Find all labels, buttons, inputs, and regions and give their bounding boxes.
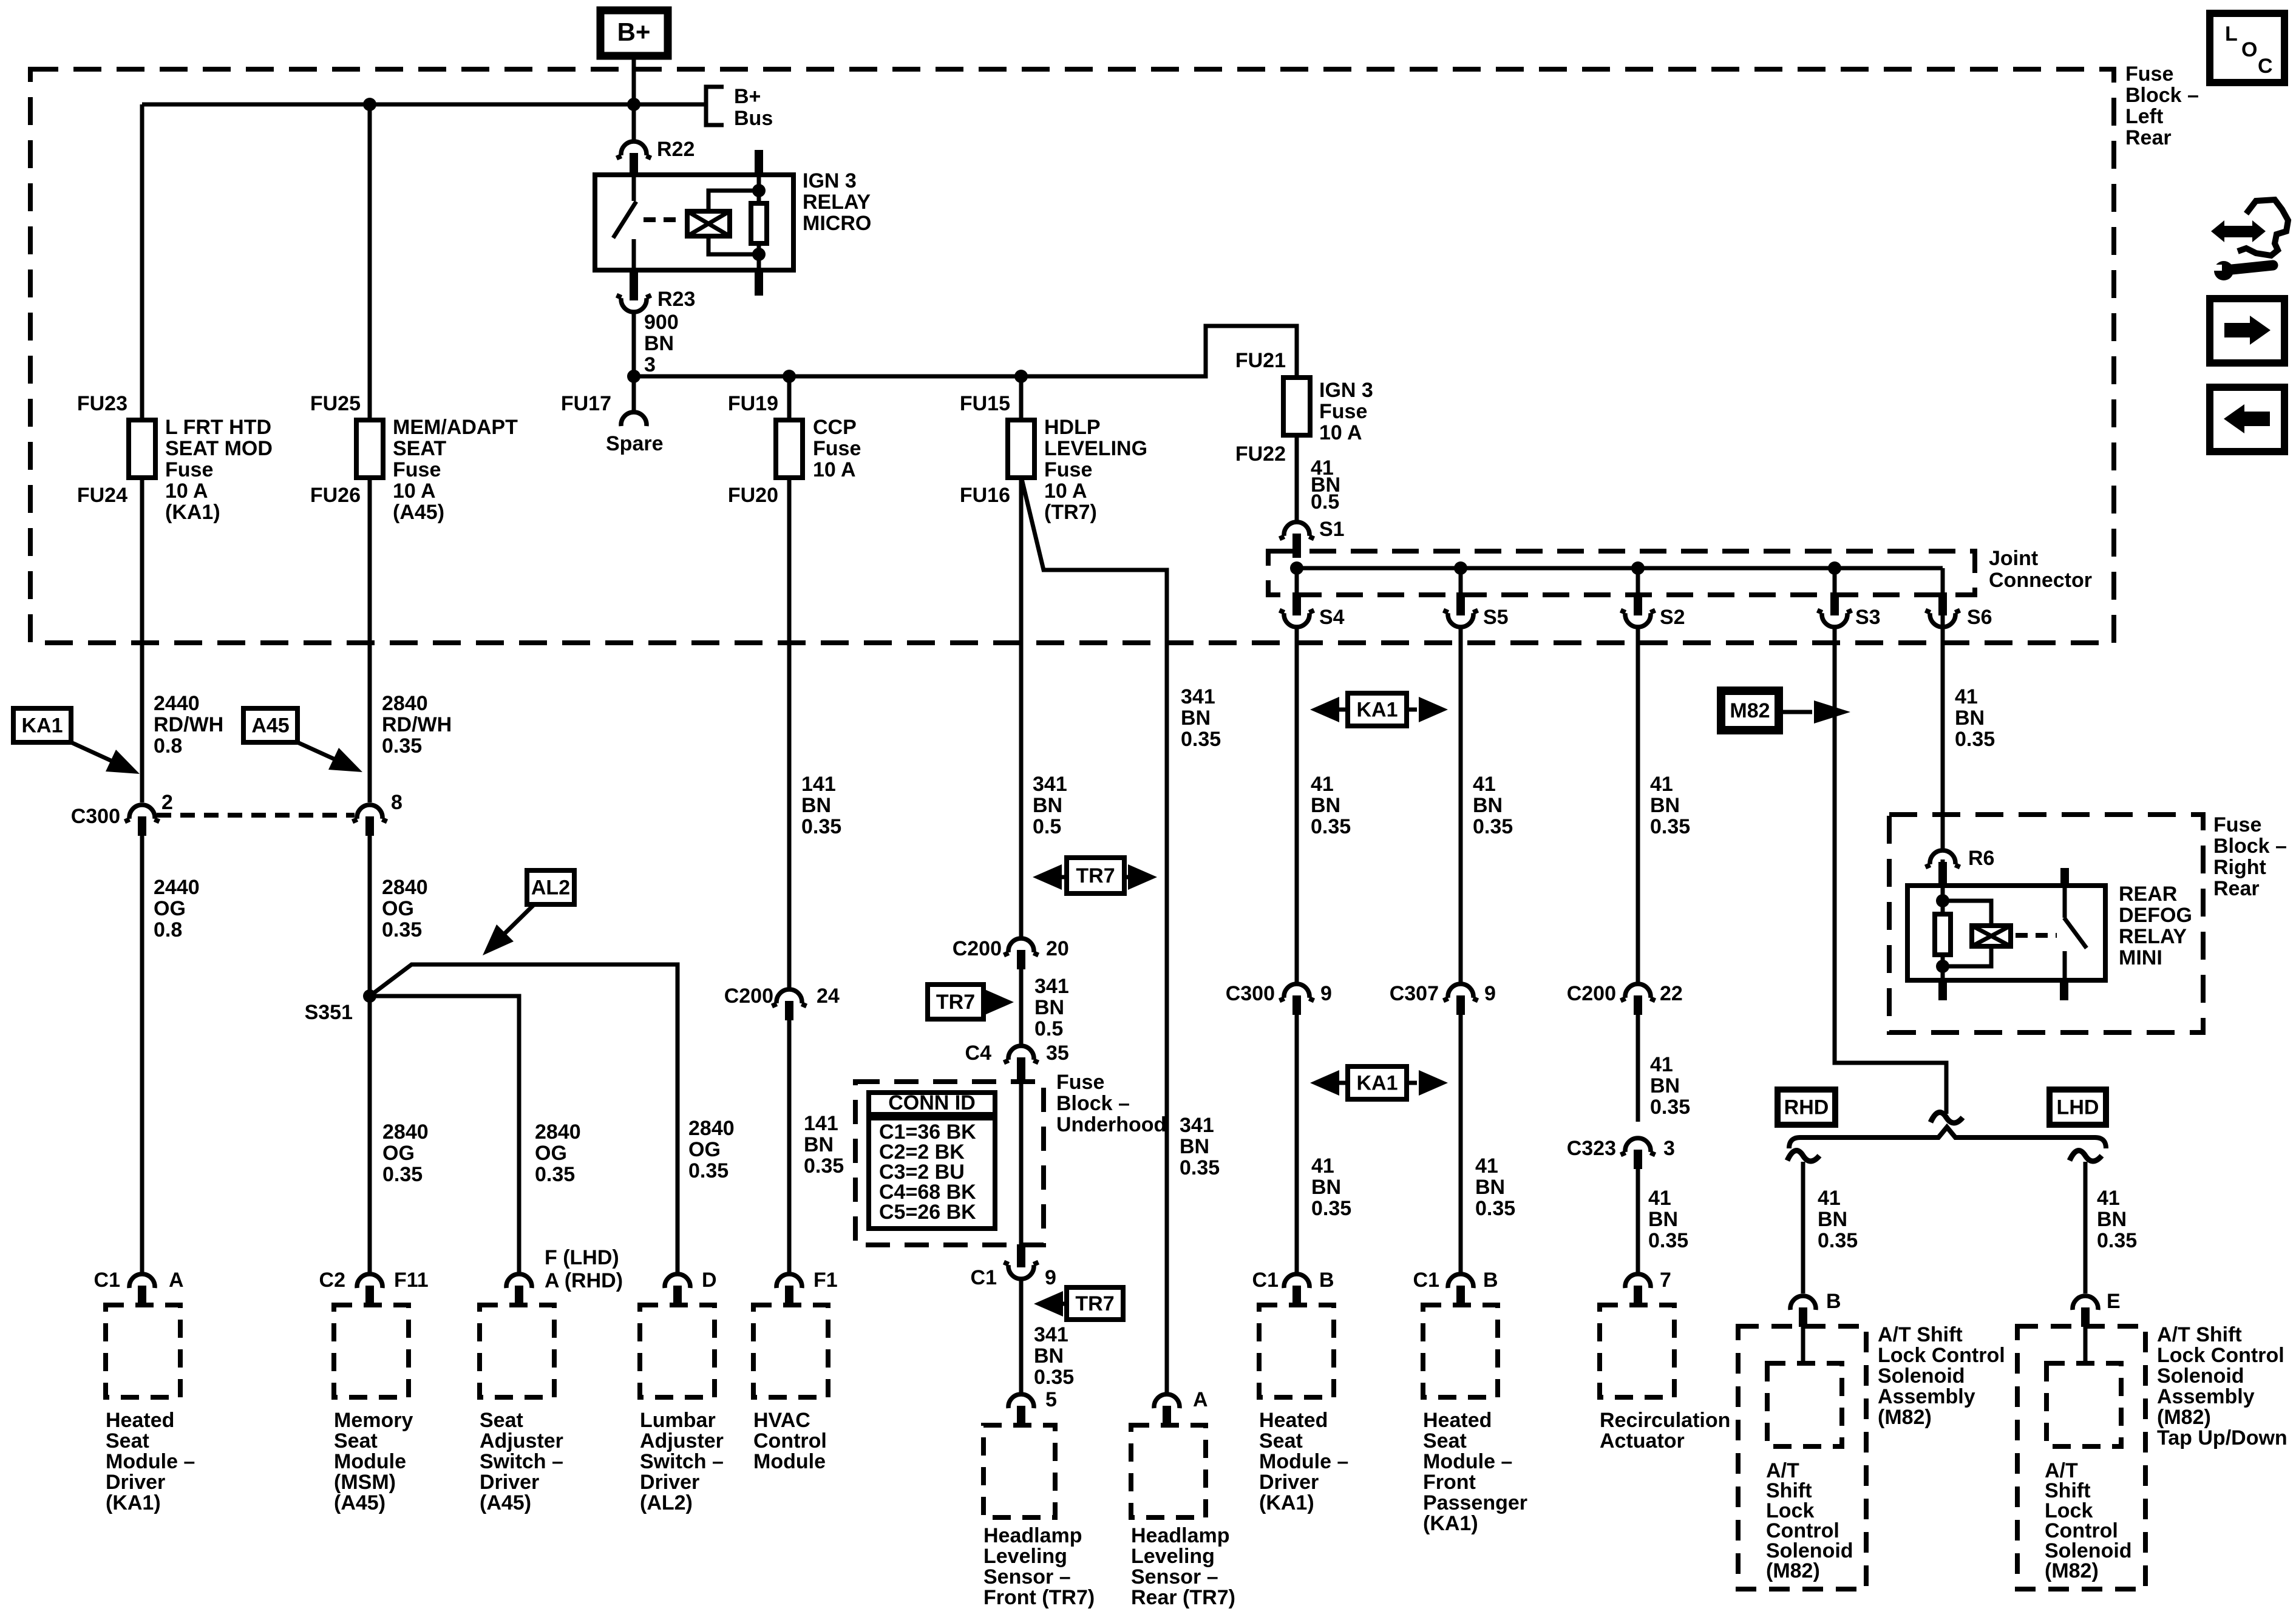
svg-text:Left: Left bbox=[2125, 105, 2163, 128]
svg-text:A/T Shift: A/T Shift bbox=[1878, 1323, 1963, 1346]
svg-text:(TR7): (TR7) bbox=[1044, 501, 1097, 524]
svg-text:341: 341 bbox=[1034, 975, 1069, 998]
svg-text:S2: S2 bbox=[1660, 606, 1685, 629]
svg-text:REAR: REAR bbox=[2119, 883, 2177, 906]
svg-text:(M82): (M82) bbox=[2157, 1406, 2211, 1429]
svg-text:0.5: 0.5 bbox=[1033, 815, 1061, 838]
svg-text:BN: BN bbox=[2097, 1208, 2127, 1231]
svg-text:Solenoid: Solenoid bbox=[1878, 1364, 1965, 1388]
svg-text:BN: BN bbox=[1650, 794, 1680, 817]
svg-text:BN: BN bbox=[644, 332, 674, 355]
svg-text:141: 141 bbox=[804, 1112, 838, 1135]
svg-text:Fuse: Fuse bbox=[2213, 813, 2261, 836]
svg-text:F (LHD): F (LHD) bbox=[545, 1246, 619, 1269]
svg-text:KA1: KA1 bbox=[21, 714, 63, 737]
svg-text:9: 9 bbox=[1045, 1266, 1056, 1289]
svg-text:R23: R23 bbox=[657, 288, 695, 311]
svg-text:10 A: 10 A bbox=[813, 458, 856, 481]
svg-text:FU25: FU25 bbox=[310, 392, 361, 415]
svg-text:LHD: LHD bbox=[2057, 1096, 2099, 1119]
svg-text:AL2: AL2 bbox=[531, 876, 570, 900]
svg-text:341: 341 bbox=[1034, 1323, 1068, 1346]
svg-text:Lumbar: Lumbar bbox=[640, 1409, 716, 1432]
svg-text:HVAC: HVAC bbox=[753, 1409, 810, 1432]
svg-text:IGN 3: IGN 3 bbox=[1319, 379, 1373, 402]
svg-text:Module –: Module – bbox=[106, 1450, 195, 1473]
svg-text:2840: 2840 bbox=[535, 1120, 581, 1144]
svg-text:C300: C300 bbox=[1226, 982, 1275, 1005]
svg-text:A45: A45 bbox=[251, 714, 289, 737]
svg-text:Rear (TR7): Rear (TR7) bbox=[1131, 1586, 1235, 1609]
svg-text:L: L bbox=[2225, 22, 2238, 46]
svg-text:(M82): (M82) bbox=[1766, 1559, 1820, 1582]
svg-text:41: 41 bbox=[1473, 773, 1496, 796]
svg-text:2440: 2440 bbox=[154, 692, 200, 715]
svg-text:Heated: Heated bbox=[1423, 1409, 1492, 1432]
svg-text:C: C bbox=[2258, 55, 2273, 78]
svg-text:8: 8 bbox=[391, 791, 402, 814]
svg-text:RELAY: RELAY bbox=[803, 191, 871, 214]
svg-text:FU17: FU17 bbox=[561, 392, 611, 415]
svg-text:Front (TR7): Front (TR7) bbox=[983, 1586, 1095, 1609]
svg-text:Seat: Seat bbox=[334, 1429, 378, 1453]
svg-text:3: 3 bbox=[1663, 1137, 1675, 1160]
svg-text:FU23: FU23 bbox=[77, 392, 127, 415]
svg-text:Fuse: Fuse bbox=[165, 458, 213, 481]
svg-text:141: 141 bbox=[801, 773, 836, 796]
svg-text:0.35: 0.35 bbox=[1648, 1229, 1688, 1252]
svg-text:Switch –: Switch – bbox=[480, 1450, 563, 1473]
svg-text:Underhood: Underhood bbox=[1056, 1113, 1166, 1136]
svg-text:3: 3 bbox=[644, 353, 656, 376]
svg-text:0.35: 0.35 bbox=[535, 1163, 575, 1186]
svg-text:Leveling: Leveling bbox=[1131, 1545, 1215, 1568]
svg-text:Passenger: Passenger bbox=[1423, 1491, 1527, 1514]
svg-text:2840: 2840 bbox=[382, 692, 428, 715]
svg-text:M82: M82 bbox=[1730, 699, 1770, 722]
svg-text:(KA1): (KA1) bbox=[1259, 1491, 1314, 1514]
svg-text:FU21: FU21 bbox=[1235, 349, 1286, 372]
svg-text:Rear: Rear bbox=[2125, 126, 2172, 149]
svg-text:OG: OG bbox=[535, 1142, 567, 1165]
svg-text:BN: BN bbox=[1181, 707, 1211, 730]
svg-text:Joint: Joint bbox=[1989, 547, 2038, 570]
svg-text:B: B bbox=[1319, 1269, 1334, 1292]
svg-text:C1: C1 bbox=[1252, 1269, 1279, 1292]
svg-text:0.35: 0.35 bbox=[1311, 815, 1351, 838]
svg-text:A: A bbox=[1193, 1388, 1208, 1411]
svg-text:S5: S5 bbox=[1483, 606, 1509, 629]
svg-text:Assembly: Assembly bbox=[1878, 1385, 1975, 1408]
svg-text:35: 35 bbox=[1046, 1042, 1069, 1065]
svg-text:Fuse: Fuse bbox=[1056, 1071, 1104, 1094]
svg-text:SEAT MOD: SEAT MOD bbox=[165, 437, 273, 460]
svg-text:C300: C300 bbox=[71, 805, 120, 828]
svg-text:S6: S6 bbox=[1967, 606, 1992, 629]
svg-text:C1: C1 bbox=[94, 1269, 120, 1292]
svg-text:(KA1): (KA1) bbox=[106, 1491, 161, 1514]
svg-text:BN: BN bbox=[1033, 794, 1062, 817]
svg-text:FU19: FU19 bbox=[728, 392, 778, 415]
svg-text:22: 22 bbox=[1660, 982, 1683, 1005]
svg-text:Actuator: Actuator bbox=[1600, 1429, 1685, 1453]
svg-text:Switch –: Switch – bbox=[640, 1450, 724, 1473]
svg-text:FU16: FU16 bbox=[960, 484, 1010, 507]
svg-text:RD/WH: RD/WH bbox=[382, 713, 452, 736]
svg-text:B: B bbox=[1483, 1269, 1498, 1292]
svg-text:SEAT: SEAT bbox=[393, 437, 446, 460]
svg-text:RD/WH: RD/WH bbox=[154, 713, 223, 736]
svg-text:Driver: Driver bbox=[106, 1471, 165, 1494]
svg-text:0.35: 0.35 bbox=[1818, 1229, 1858, 1252]
svg-text:2: 2 bbox=[161, 791, 173, 814]
svg-text:Heated: Heated bbox=[1259, 1409, 1328, 1432]
svg-text:BN: BN bbox=[801, 794, 831, 817]
svg-text:BN: BN bbox=[1180, 1135, 1209, 1158]
svg-text:0.35: 0.35 bbox=[1650, 1096, 1690, 1119]
svg-text:BN: BN bbox=[1650, 1074, 1680, 1097]
svg-text:341: 341 bbox=[1033, 773, 1067, 796]
svg-text:(KA1): (KA1) bbox=[1423, 1512, 1478, 1535]
svg-text:A: A bbox=[169, 1269, 184, 1292]
svg-text:BN: BN bbox=[1818, 1208, 1847, 1231]
svg-text:FU15: FU15 bbox=[960, 392, 1010, 415]
svg-text:41: 41 bbox=[1311, 1154, 1334, 1178]
svg-text:41: 41 bbox=[1818, 1187, 1841, 1210]
svg-text:10 A: 10 A bbox=[165, 480, 208, 503]
svg-text:IGN 3: IGN 3 bbox=[803, 169, 857, 192]
svg-text:Driver: Driver bbox=[1259, 1471, 1319, 1494]
svg-text:MINI: MINI bbox=[2119, 946, 2162, 969]
svg-text:FU22: FU22 bbox=[1235, 442, 1286, 466]
svg-text:Fuse: Fuse bbox=[1319, 400, 1367, 423]
svg-text:C307: C307 bbox=[1390, 982, 1439, 1005]
svg-text:2840: 2840 bbox=[688, 1117, 735, 1140]
svg-text:S4: S4 bbox=[1319, 606, 1345, 629]
svg-text:B+: B+ bbox=[734, 85, 761, 108]
svg-text:Adjuster: Adjuster bbox=[480, 1429, 563, 1453]
svg-text:Front: Front bbox=[1423, 1471, 1476, 1494]
svg-text:B+: B+ bbox=[617, 18, 651, 46]
svg-text:O: O bbox=[2241, 38, 2257, 61]
svg-text:0.5: 0.5 bbox=[1311, 490, 1339, 514]
svg-text:10 A: 10 A bbox=[1044, 480, 1087, 503]
svg-text:0.35: 0.35 bbox=[804, 1154, 844, 1178]
svg-text:A/T Shift: A/T Shift bbox=[2157, 1323, 2242, 1346]
svg-text:BN: BN bbox=[1648, 1208, 1678, 1231]
svg-text:HDLP: HDLP bbox=[1044, 416, 1101, 439]
svg-text:C323: C323 bbox=[1567, 1137, 1616, 1160]
svg-text:Seat: Seat bbox=[1259, 1429, 1303, 1453]
svg-text:C1: C1 bbox=[971, 1266, 997, 1289]
svg-text:Driver: Driver bbox=[640, 1471, 699, 1494]
svg-text:0.35: 0.35 bbox=[1475, 1197, 1515, 1220]
svg-text:KA1: KA1 bbox=[1356, 1072, 1398, 1095]
svg-text:Fuse: Fuse bbox=[393, 458, 441, 481]
svg-text:2440: 2440 bbox=[154, 876, 200, 899]
svg-text:MICRO: MICRO bbox=[803, 212, 871, 235]
svg-text:Lock Control: Lock Control bbox=[1878, 1344, 2005, 1367]
svg-text:41: 41 bbox=[1955, 685, 1978, 708]
svg-text:Driver: Driver bbox=[480, 1471, 539, 1494]
svg-text:Control: Control bbox=[753, 1429, 827, 1453]
svg-text:MEM/ADAPT: MEM/ADAPT bbox=[393, 416, 518, 439]
svg-text:BN: BN bbox=[1475, 1176, 1505, 1199]
svg-text:Rear: Rear bbox=[2213, 877, 2260, 900]
svg-text:BN: BN bbox=[1311, 1176, 1341, 1199]
svg-text:Spare: Spare bbox=[606, 432, 664, 455]
svg-text:0.35: 0.35 bbox=[1180, 1156, 1220, 1179]
svg-text:OG: OG bbox=[382, 897, 414, 920]
svg-text:Connector: Connector bbox=[1989, 569, 2092, 592]
svg-text:0.35: 0.35 bbox=[1034, 1366, 1074, 1389]
svg-text:41: 41 bbox=[2097, 1187, 2120, 1210]
svg-text:RELAY: RELAY bbox=[2119, 925, 2187, 948]
svg-text:Sensor –: Sensor – bbox=[983, 1565, 1071, 1588]
svg-text:Module –: Module – bbox=[1423, 1450, 1512, 1473]
svg-text:Memory: Memory bbox=[334, 1409, 413, 1432]
svg-text:Seat: Seat bbox=[1423, 1429, 1467, 1453]
svg-text:C200: C200 bbox=[1567, 982, 1616, 1005]
svg-text:0.35: 0.35 bbox=[1181, 728, 1221, 751]
svg-text:0.35: 0.35 bbox=[382, 1163, 423, 1186]
svg-text:Leveling: Leveling bbox=[983, 1545, 1067, 1568]
svg-text:Module: Module bbox=[334, 1450, 406, 1473]
svg-text:BN: BN bbox=[804, 1133, 834, 1156]
svg-text:S351: S351 bbox=[305, 1001, 353, 1024]
svg-text:10 A: 10 A bbox=[1319, 421, 1362, 444]
svg-text:41: 41 bbox=[1648, 1187, 1671, 1210]
svg-text:Adjuster: Adjuster bbox=[640, 1429, 724, 1453]
svg-text:OG: OG bbox=[154, 897, 186, 920]
svg-text:CONN ID: CONN ID bbox=[888, 1091, 976, 1114]
svg-text:(M82): (M82) bbox=[1878, 1406, 1932, 1429]
svg-text:2840: 2840 bbox=[382, 1120, 429, 1144]
svg-text:L FRT HTD: L FRT HTD bbox=[165, 416, 271, 439]
svg-text:20: 20 bbox=[1046, 937, 1069, 960]
svg-text:C2: C2 bbox=[319, 1269, 345, 1292]
svg-text:C5=26 BK: C5=26 BK bbox=[879, 1201, 976, 1224]
svg-text:C4: C4 bbox=[965, 1042, 992, 1065]
svg-text:Assembly: Assembly bbox=[2157, 1385, 2255, 1408]
svg-text:Block –: Block – bbox=[1056, 1092, 1130, 1115]
svg-text:(A45): (A45) bbox=[480, 1491, 531, 1514]
svg-text:E: E bbox=[2107, 1290, 2121, 1313]
svg-text:(A45): (A45) bbox=[334, 1491, 385, 1514]
svg-text:S1: S1 bbox=[1319, 518, 1345, 541]
svg-text:9: 9 bbox=[1320, 982, 1332, 1005]
svg-text:0.35: 0.35 bbox=[382, 918, 422, 941]
svg-text:0.35: 0.35 bbox=[801, 815, 841, 838]
svg-text:TR7: TR7 bbox=[1075, 1292, 1114, 1315]
svg-text:Lock Control: Lock Control bbox=[2157, 1344, 2284, 1367]
svg-text:BN: BN bbox=[1955, 707, 1985, 730]
svg-text:F1: F1 bbox=[813, 1269, 838, 1292]
svg-text:Seat: Seat bbox=[106, 1429, 149, 1453]
svg-text:900: 900 bbox=[644, 311, 679, 334]
svg-text:A (RHD): A (RHD) bbox=[545, 1269, 623, 1292]
svg-text:(AL2): (AL2) bbox=[640, 1491, 693, 1514]
svg-text:24: 24 bbox=[817, 985, 840, 1008]
svg-text:Heated: Heated bbox=[106, 1409, 174, 1432]
svg-text:KA1: KA1 bbox=[1356, 699, 1398, 722]
svg-text:Block –: Block – bbox=[2213, 835, 2287, 858]
svg-text:B: B bbox=[1826, 1290, 1841, 1313]
svg-text:9: 9 bbox=[1484, 982, 1496, 1005]
svg-text:0.5: 0.5 bbox=[1034, 1017, 1063, 1040]
svg-text:(M82): (M82) bbox=[2045, 1559, 2099, 1582]
svg-text:0.8: 0.8 bbox=[154, 734, 182, 758]
svg-text:FU24: FU24 bbox=[77, 484, 127, 507]
svg-text:Module: Module bbox=[753, 1450, 826, 1473]
svg-text:0.35: 0.35 bbox=[1955, 728, 1995, 751]
svg-text:C200: C200 bbox=[953, 937, 1002, 960]
svg-text:OG: OG bbox=[382, 1142, 415, 1165]
svg-text:TR7: TR7 bbox=[936, 991, 975, 1014]
svg-text:10 A: 10 A bbox=[393, 480, 436, 503]
svg-text:Seat: Seat bbox=[480, 1409, 523, 1432]
svg-text:RHD: RHD bbox=[1784, 1096, 1829, 1119]
svg-text:CCP: CCP bbox=[813, 416, 857, 439]
svg-text:DEFOG: DEFOG bbox=[2119, 904, 2192, 927]
svg-text:0.8: 0.8 bbox=[154, 918, 182, 941]
svg-text:41: 41 bbox=[1650, 773, 1673, 796]
svg-text:0.35: 0.35 bbox=[1311, 1197, 1351, 1220]
svg-text:(KA1): (KA1) bbox=[165, 501, 220, 524]
svg-text:C200: C200 bbox=[724, 985, 773, 1008]
svg-text:0.35: 0.35 bbox=[382, 734, 422, 758]
svg-text:BN: BN bbox=[1473, 794, 1503, 817]
svg-text:S3: S3 bbox=[1855, 606, 1881, 629]
svg-text:Fuse: Fuse bbox=[1044, 458, 1092, 481]
svg-text:0.35: 0.35 bbox=[2097, 1229, 2137, 1252]
svg-text:Bus: Bus bbox=[734, 107, 773, 130]
svg-text:LEVELING: LEVELING bbox=[1044, 437, 1147, 460]
svg-text:5: 5 bbox=[1045, 1388, 1057, 1411]
svg-text:41: 41 bbox=[1475, 1154, 1498, 1178]
svg-text:OG: OG bbox=[688, 1138, 721, 1161]
svg-text:Fuse: Fuse bbox=[2125, 63, 2173, 86]
svg-text:341: 341 bbox=[1181, 685, 1215, 708]
svg-text:BN: BN bbox=[1311, 794, 1340, 817]
svg-text:Fuse: Fuse bbox=[813, 437, 861, 460]
svg-text:R22: R22 bbox=[657, 138, 695, 161]
svg-text:(MSM): (MSM) bbox=[334, 1471, 396, 1494]
svg-text:0.35: 0.35 bbox=[1650, 815, 1690, 838]
svg-text:2840: 2840 bbox=[382, 876, 428, 899]
svg-text:41: 41 bbox=[1650, 1053, 1673, 1076]
svg-text:Right: Right bbox=[2213, 856, 2266, 879]
svg-text:0.35: 0.35 bbox=[688, 1159, 729, 1182]
svg-text:Recirculation: Recirculation bbox=[1600, 1409, 1730, 1432]
svg-text:(A45): (A45) bbox=[393, 501, 444, 524]
svg-text:Headlamp: Headlamp bbox=[1131, 1524, 1230, 1547]
svg-text:BN: BN bbox=[1034, 996, 1064, 1019]
svg-text:41: 41 bbox=[1311, 773, 1334, 796]
svg-text:F11: F11 bbox=[394, 1269, 429, 1292]
svg-text:7: 7 bbox=[1660, 1269, 1671, 1292]
svg-text:Headlamp: Headlamp bbox=[983, 1524, 1082, 1547]
svg-text:341: 341 bbox=[1180, 1114, 1214, 1137]
svg-text:Module –: Module – bbox=[1259, 1450, 1348, 1473]
svg-text:BN: BN bbox=[1034, 1344, 1064, 1368]
svg-text:0.35: 0.35 bbox=[1473, 815, 1513, 838]
svg-text:C1: C1 bbox=[1413, 1269, 1439, 1292]
svg-text:Block –: Block – bbox=[2125, 84, 2199, 107]
svg-text:FU26: FU26 bbox=[310, 484, 361, 507]
svg-text:FU20: FU20 bbox=[728, 484, 778, 507]
svg-text:Sensor –: Sensor – bbox=[1131, 1565, 1218, 1588]
svg-text:TR7: TR7 bbox=[1076, 864, 1115, 887]
svg-text:Solenoid: Solenoid bbox=[2157, 1364, 2244, 1388]
svg-text:D: D bbox=[702, 1269, 717, 1292]
svg-text:R6: R6 bbox=[1968, 847, 1994, 870]
svg-text:Tap Up/Down: Tap Up/Down bbox=[2157, 1426, 2288, 1449]
